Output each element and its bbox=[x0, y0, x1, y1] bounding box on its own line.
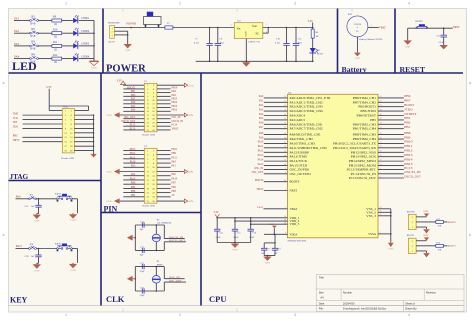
wire D6 to ground rail bbox=[312, 52, 314, 62]
ground P4 bbox=[124, 43, 132, 52]
svg-text:3.3V: 3.3V bbox=[423, 210, 428, 213]
ground U3 bbox=[242, 61, 250, 66]
wire PA1 to JP1 bbox=[14, 20, 30, 22]
net label PC15 P1 bbox=[123, 124, 144, 127]
jumper JP6 bbox=[29, 243, 37, 249]
net label PB13 P2 bbox=[123, 148, 144, 151]
svg-text:PA2: PA2 bbox=[259, 104, 264, 107]
svg-text:BOOT1: BOOT1 bbox=[407, 234, 416, 237]
wire PA4 to JP4 bbox=[14, 58, 30, 60]
net label PA9 CPU bbox=[259, 136, 264, 139]
pin label PA15/JTDI bbox=[290, 164, 308, 168]
svg-text:File:: File: bbox=[319, 306, 324, 310]
svg-text:GND: GND bbox=[355, 57, 360, 60]
resistor R8 1K bbox=[311, 28, 319, 39]
svg-text:22pF: 22pF bbox=[140, 295, 145, 297]
svg-text:TMS: TMS bbox=[13, 112, 19, 115]
net label PB3 P2 bbox=[157, 190, 177, 193]
svg-text:PB8/TIM4_CH3: PB8/TIM4_CH3 bbox=[353, 133, 377, 137]
wire VSS bus bbox=[378, 207, 392, 242]
net label PA5 CPU bbox=[259, 117, 264, 120]
net label PC14 P1 bbox=[157, 124, 178, 127]
wire PA13 to CPU pin 34 bbox=[264, 155, 288, 157]
switch KEY2 bbox=[55, 242, 72, 251]
svg-text:PB10: PB10 bbox=[172, 86, 178, 89]
ground C11 bbox=[33, 214, 41, 223]
net label TDI JTAG bbox=[13, 121, 17, 124]
svg-text:0.1uF: 0.1uF bbox=[234, 237, 240, 239]
net label PB12 P2 bbox=[123, 152, 144, 155]
net label PB15 P1 bbox=[157, 97, 178, 100]
wire BAT pin1 to VBAT bbox=[368, 25, 379, 27]
net label NRST JTAG bbox=[13, 139, 20, 142]
wire R9 to LED01 bbox=[62, 20, 73, 22]
svg-text:PA3: PA3 bbox=[14, 42, 19, 46]
net label PA0 bbox=[16, 196, 21, 199]
svg-text:31: 31 bbox=[284, 142, 286, 144]
net label OSC32_OUT bbox=[169, 239, 186, 242]
svg-text:21: 21 bbox=[380, 142, 382, 144]
wire KEY1 to GND bbox=[72, 199, 77, 213]
svg-text:24: 24 bbox=[284, 216, 286, 218]
svg-text:GND: GND bbox=[70, 219, 75, 222]
capacitor C11 1uF bbox=[25, 199, 42, 214]
net label PA14 CPU bbox=[258, 158, 264, 161]
power port 3.3V P1 pin1 bbox=[117, 79, 145, 85]
wire VDD_1 rail bbox=[216, 216, 287, 219]
wire BOOT1 pin2 to BOOT1 bbox=[416, 245, 436, 247]
svg-text:2019/4/30: 2019/4/30 bbox=[343, 301, 355, 305]
power port GND left P2 row6 bbox=[106, 169, 144, 174]
svg-text:GND: GND bbox=[34, 220, 39, 223]
wire RESET left to GND bbox=[407, 28, 409, 39]
pin label PA14/JTCK bbox=[290, 159, 308, 163]
svg-text:Header 13X2: Header 13X2 bbox=[142, 133, 156, 136]
wire PA6 to CPU pin 16 bbox=[264, 123, 288, 125]
capacitor C9 10uf bbox=[215, 28, 224, 62]
wire PA12 to CPU pin 33 bbox=[264, 151, 288, 153]
svg-text:PB3/JTDO: PB3/JTDO bbox=[360, 109, 376, 113]
svg-text:10K: 10K bbox=[438, 226, 442, 228]
text Header 13X2 P2 bbox=[142, 205, 156, 208]
wire U3 GND pin bbox=[245, 39, 247, 62]
svg-text:NRST: NRST bbox=[453, 26, 460, 29]
pin label PA6/ADC6/TIM3_CH1 bbox=[290, 122, 324, 126]
svg-text:44: 44 bbox=[284, 180, 286, 182]
power label 3.3V VDD bbox=[214, 211, 220, 218]
svg-text:3.3V: 3.3V bbox=[214, 211, 219, 214]
net label PB1 CPU right bbox=[404, 126, 411, 129]
LED LED02 bbox=[73, 28, 90, 36]
svg-text:PA11: PA11 bbox=[172, 156, 178, 159]
net label PA11 P2 bbox=[157, 156, 178, 159]
svg-text:1uF: 1uF bbox=[31, 205, 35, 208]
capacitor C14 0.1uF VDD bbox=[214, 218, 224, 243]
wire VDDA caps to ground bbox=[264, 255, 275, 257]
svg-text:Header 10X2: Header 10X2 bbox=[62, 157, 76, 160]
pin label PB0/TIM3_CH3 bbox=[353, 122, 377, 126]
svg-text:a: a bbox=[3, 81, 5, 85]
svg-text:PB15: PB15 bbox=[172, 97, 178, 100]
svg-text:GND: GND bbox=[265, 262, 270, 265]
capacitor C21 22pF bbox=[140, 263, 145, 273]
svg-text:Drawn By:: Drawn By: bbox=[405, 306, 417, 310]
power port GND right P1 row1 bbox=[157, 83, 194, 87]
svg-text:VBAT: VBAT bbox=[257, 206, 264, 209]
wire P4 pin1 to rail bbox=[114, 27, 143, 29]
header P2 Header 13X2 bbox=[144, 145, 157, 203]
net label PA11 CPU bbox=[258, 145, 264, 148]
svg-text:OSC_OUT: OSC_OUT bbox=[169, 279, 182, 282]
pin label PB1/TIM3_CH4 bbox=[353, 127, 377, 131]
wire S1 to F1 bbox=[143, 27, 165, 29]
svg-text:0.1uF: 0.1uF bbox=[249, 237, 255, 239]
net label PA8 CPU bbox=[259, 132, 264, 135]
section title Battery bbox=[342, 65, 367, 74]
ground BAT bbox=[354, 52, 361, 60]
section title CLK bbox=[106, 294, 125, 304]
svg-text:1: 1 bbox=[371, 25, 372, 27]
ground rail POWER bbox=[196, 61, 314, 63]
svg-text:22pF: 22pF bbox=[140, 271, 145, 273]
wire JTAG GND bus bbox=[74, 114, 94, 152]
svg-text:PA1/ADC1/TIM2_CH2: PA1/ADC1/TIM2_CH2 bbox=[290, 100, 324, 104]
net label PC13 P1 bbox=[123, 127, 144, 130]
switch KEY1 bbox=[55, 193, 72, 202]
section title PIN bbox=[104, 204, 118, 213]
wire TCK to JTAG bbox=[23, 119, 63, 121]
wire BOOT0 pin2 to BOOT0 bbox=[416, 221, 436, 223]
svg-text:PB12/SPI2_NSS: PB12/SPI2_NSS bbox=[351, 150, 377, 154]
pin label VDDA bbox=[290, 232, 298, 236]
pin label PA0/ADC0/TIM2_CH1_ETR bbox=[290, 96, 332, 100]
svg-text:GND: GND bbox=[34, 269, 39, 272]
connector P4 POWERIN bbox=[108, 22, 120, 44]
svg-text:45: 45 bbox=[380, 133, 382, 135]
svg-text:DC5V: DC5V bbox=[109, 40, 116, 43]
svg-text:PA4: PA4 bbox=[14, 55, 19, 59]
net label PA3 CPU bbox=[259, 108, 264, 111]
net label PA6 P1 bbox=[123, 101, 144, 104]
svg-text:30: 30 bbox=[284, 137, 286, 139]
net label OSC32_OUT P1 bbox=[121, 120, 144, 123]
capacitor C17 9pF bbox=[140, 247, 145, 257]
svg-text:25: 25 bbox=[380, 151, 382, 153]
pin label PB15/SPI2_MOSI bbox=[349, 164, 376, 168]
svg-text:VBAT: VBAT bbox=[290, 207, 298, 211]
svg-text:PA4: PA4 bbox=[259, 113, 264, 116]
svg-text:TDO: TDO bbox=[13, 126, 18, 129]
svg-text:14: 14 bbox=[284, 114, 286, 116]
net label PA6 CPU bbox=[259, 122, 264, 125]
net label PB8 P2 bbox=[123, 190, 144, 193]
svg-text:8: 8 bbox=[380, 232, 381, 234]
wire CPU pin 22 to PB11 bbox=[378, 146, 404, 148]
svg-text:TDI: TDI bbox=[13, 121, 17, 124]
net label PB9 P2 bbox=[157, 152, 177, 155]
wire P4 pins 2-3 to GND bbox=[114, 31, 128, 43]
svg-text:PA1: PA1 bbox=[259, 100, 264, 103]
svg-text:PB6/TIM4_CH1: PB6/TIM4_CH1 bbox=[353, 96, 377, 100]
svg-text:PB10: PB10 bbox=[404, 141, 413, 144]
svg-text:PB1/TIM3_CH4: PB1/TIM3_CH4 bbox=[353, 127, 377, 131]
net label OSC32_IN bbox=[169, 236, 183, 239]
section title JTAG bbox=[10, 173, 29, 181]
svg-text:PA14: PA14 bbox=[172, 177, 178, 180]
svg-text:2: 2 bbox=[179, 313, 181, 317]
svg-text:R12: R12 bbox=[53, 54, 58, 57]
pin label PB6/TIM4_CH1 bbox=[353, 96, 377, 100]
wire PA2 to JP2 bbox=[14, 32, 30, 34]
net label PB5 CPU right bbox=[404, 117, 411, 120]
net label PB6 P2 bbox=[123, 182, 144, 185]
wire LED04 to GND bus bbox=[79, 58, 94, 60]
pin label NRST bbox=[290, 189, 298, 193]
svg-text:PB9: PB9 bbox=[404, 136, 411, 139]
wire PA11 to CPU pin 32 bbox=[264, 146, 288, 148]
wire BOOT1 pin1 to GND bbox=[416, 251, 426, 252]
svg-text:48: 48 bbox=[284, 223, 286, 225]
net label PB8 CPU right bbox=[404, 132, 411, 135]
svg-text:35: 35 bbox=[380, 211, 382, 213]
wire CPU pin 19 to PB1 bbox=[378, 127, 404, 129]
svg-text:PA3/ADC3/TIM2_CH4: PA3/ADC3/TIM2_CH4 bbox=[290, 109, 324, 113]
net label 5V P2 bbox=[157, 194, 175, 197]
svg-text:VBAT: VBAT bbox=[379, 27, 386, 30]
svg-text:PA4/ADC4: PA4/ADC4 bbox=[290, 114, 306, 118]
svg-text:VSSA: VSSA bbox=[368, 232, 377, 236]
svg-text:PA12/USBDP: PA12/USBDP bbox=[290, 150, 310, 154]
pin label PA4/ADC4 bbox=[290, 114, 306, 118]
svg-text:JP-B: JP-B bbox=[30, 48, 35, 51]
svg-text:Size: Size bbox=[319, 290, 325, 294]
net label PA8 P1 bbox=[157, 90, 177, 93]
ground BOOT0 bbox=[423, 228, 430, 233]
wire F1 to U3 Vin bbox=[173, 27, 234, 29]
ground VDD caps bbox=[231, 243, 239, 252]
pin label VSS_3 bbox=[366, 214, 376, 218]
capacitor C12 10uf bbox=[293, 28, 302, 62]
wire CPU pin 42 to PB6 bbox=[378, 96, 404, 98]
svg-text:GND: GND bbox=[232, 249, 237, 252]
net label PA2 P2 bbox=[123, 173, 144, 176]
svg-text:3: 3 bbox=[285, 168, 286, 170]
svg-text:9: 9 bbox=[285, 233, 286, 235]
svg-text:PB7: PB7 bbox=[172, 182, 177, 185]
wire CPU pin 40 to NJTRST bbox=[378, 114, 404, 116]
svg-text:JTAG: JTAG bbox=[10, 173, 29, 181]
svg-text:4: 4 bbox=[380, 176, 381, 178]
header P1 Header 13X2 bbox=[144, 80, 157, 132]
capacitor C7 0.1uf bbox=[194, 28, 213, 62]
wire PA4 to CPU pin 14 bbox=[264, 114, 288, 116]
pin label PB7/TIM4_CH2 bbox=[353, 100, 377, 104]
svg-text:1: 1 bbox=[412, 227, 413, 229]
net label BOOT0 bbox=[444, 221, 457, 224]
svg-text:22: 22 bbox=[380, 146, 382, 148]
pin label VSS_1 bbox=[366, 207, 376, 211]
resistor R9 bbox=[52, 16, 62, 26]
svg-text:PA1: PA1 bbox=[14, 16, 19, 20]
svg-text:32.768kHz: 32.768kHz bbox=[157, 222, 173, 225]
resistor R14 10K bbox=[436, 243, 444, 252]
svg-text:46: 46 bbox=[380, 137, 382, 139]
net label PA4 CPU bbox=[259, 113, 264, 116]
svg-text:13: 13 bbox=[284, 109, 286, 111]
net label PA1 P2 bbox=[157, 165, 177, 168]
wire R12 to LED04 bbox=[62, 58, 73, 60]
wire TDI to JTAG bbox=[23, 123, 63, 125]
wire PA0 to CPU pin 10 bbox=[264, 96, 288, 98]
wire CPU pin 20 to BOOT1 bbox=[378, 105, 404, 107]
svg-text:BOOT1: BOOT1 bbox=[448, 245, 457, 248]
net label PB5 P2 bbox=[157, 186, 177, 189]
net label OSC_IN bbox=[169, 276, 180, 279]
wire CPU pin 2 to PC13 bbox=[378, 168, 404, 170]
wire U3 Vout rail bbox=[263, 27, 314, 33]
wire BOOT1 pin3 to 3.3V bbox=[416, 240, 426, 242]
svg-text:PB13: PB13 bbox=[404, 154, 413, 157]
svg-text:32: 32 bbox=[284, 146, 286, 148]
svg-text:PB9/TIM4_CH4: PB9/TIM4_CH4 bbox=[353, 137, 377, 141]
svg-text:3.3V: 3.3V bbox=[269, 223, 274, 226]
pin label PA11/USBDM/TIM1_CH4 bbox=[290, 146, 328, 150]
svg-text:26: 26 bbox=[380, 155, 382, 157]
svg-text:OSC_OUT: OSC_OUT bbox=[252, 171, 264, 174]
svg-text:PA15: PA15 bbox=[258, 163, 264, 166]
ground LED bus bbox=[90, 61, 99, 69]
net label PB7 CPU right bbox=[404, 100, 411, 103]
wire LED01 to GND bus bbox=[79, 20, 94, 22]
svg-text:3.3V: 3.3V bbox=[117, 79, 122, 82]
ground RESET left bbox=[404, 39, 412, 48]
svg-text:PB14: PB14 bbox=[172, 101, 178, 104]
ground KEY1 bbox=[69, 213, 77, 222]
wire PA3 to JP3 bbox=[14, 45, 30, 47]
pin label PB2/BOOT1 bbox=[358, 105, 376, 109]
svg-text:4: 4 bbox=[408, 2, 410, 6]
svg-text:2: 2 bbox=[111, 32, 112, 34]
svg-text:POWERIN: POWERIN bbox=[108, 22, 120, 25]
svg-text:3.3V: 3.3V bbox=[308, 20, 314, 23]
wire JP2 to R10 bbox=[38, 32, 52, 34]
wire BOOT0 pin3 to 3.3V bbox=[416, 216, 426, 218]
svg-text:PA8/MCO/TIM1_CH1: PA8/MCO/TIM1_CH1 bbox=[290, 133, 322, 137]
svg-text:PA9/TIM1_CH2: PA9/TIM1_CH2 bbox=[290, 137, 314, 141]
net label PB15 CPU right bbox=[404, 163, 413, 166]
pin label PC14/OSC32_IN bbox=[351, 172, 377, 176]
power port 3.3V right P2 row13 bbox=[157, 199, 193, 203]
svg-text:PA10/TIM1_CH3: PA10/TIM1_CH3 bbox=[290, 141, 316, 145]
net label PA13 P2 bbox=[123, 177, 144, 180]
switch S1 bbox=[144, 12, 162, 28]
svg-text:PB9: PB9 bbox=[172, 152, 177, 155]
svg-text:1: 1 bbox=[65, 313, 67, 317]
svg-text:OSC_OUT/PD1: OSC_OUT/PD1 bbox=[290, 172, 312, 176]
pin label OSC_OUT/PD1 bbox=[290, 172, 312, 176]
svg-text:19: 19 bbox=[380, 127, 382, 129]
net label PB0 CPU right bbox=[404, 122, 411, 125]
wire OSC_IN to CPU pin 3 bbox=[264, 168, 288, 170]
svg-text:GND: GND bbox=[188, 84, 194, 87]
svg-text:PB3: PB3 bbox=[172, 190, 177, 193]
svg-text:GND: GND bbox=[388, 248, 393, 251]
wire PB3 to JTAG bbox=[23, 136, 63, 138]
power label 3.3V BOOT0 bbox=[423, 210, 429, 217]
text Header 10X2 bbox=[62, 157, 76, 160]
svg-text:PB12: PB12 bbox=[404, 150, 413, 153]
resistor R11 bbox=[52, 41, 62, 51]
wire KEY2 to GND bbox=[72, 249, 77, 263]
pin label VSSA bbox=[368, 232, 377, 236]
pin label PB14/SPI2_MISO bbox=[349, 159, 377, 163]
wire CPU pin 39 to JTDO bbox=[378, 109, 404, 111]
power label 3.3V POWER out bbox=[308, 20, 314, 28]
wire JP6 to KEY2 bbox=[36, 248, 56, 250]
wire CPU pin 41 to PB5 bbox=[378, 118, 404, 120]
net label PA12 P2 bbox=[123, 156, 144, 159]
capacitor C17 1uF VDDA bbox=[261, 243, 271, 256]
svg-text:GND: GND bbox=[106, 171, 112, 174]
svg-text:11: 11 bbox=[284, 101, 286, 103]
svg-text:PA13/JTMS: PA13/JTMS bbox=[290, 155, 308, 159]
net label PA4 bbox=[14, 55, 19, 59]
net label PB9 CPU right bbox=[404, 136, 411, 139]
wire JP1 to R9 bbox=[38, 20, 52, 22]
svg-text:BAT: BAT bbox=[348, 13, 353, 16]
svg-text:PC13: PC13 bbox=[404, 167, 413, 170]
wire CPU pin 3 to OSC32_IN bbox=[378, 172, 404, 174]
svg-text:JP-B: JP-B bbox=[30, 60, 35, 63]
capacitor C16 0.1uF VDD bbox=[248, 218, 258, 243]
svg-text:1: 1 bbox=[65, 2, 67, 6]
mcu U4 STM32F103C8T6 bbox=[288, 91, 379, 238]
svg-text:PB7: PB7 bbox=[404, 100, 411, 103]
wire VDD_3 rail bbox=[250, 223, 288, 226]
net label BOOT0 CPU bbox=[255, 179, 264, 182]
wire BAT to GND bbox=[356, 37, 358, 52]
net label VBAT P1 bbox=[157, 127, 179, 130]
svg-text:RESET: RESET bbox=[415, 20, 423, 23]
svg-text:12: 12 bbox=[284, 105, 286, 107]
power label 3.3V BOOT1 bbox=[423, 234, 429, 241]
svg-text:3.3V: 3.3V bbox=[423, 234, 428, 237]
wire PA7 to CPU pin 17 bbox=[264, 127, 288, 129]
pin label PA8/MCO/TIM1_CH1 bbox=[290, 133, 322, 137]
svg-text:PB0: PB0 bbox=[404, 122, 411, 125]
svg-text:JP-B: JP-B bbox=[30, 35, 35, 38]
svg-text:37: 37 bbox=[284, 159, 286, 161]
resistor R12 bbox=[52, 54, 62, 64]
wire PA5 to CPU pin 15 bbox=[264, 118, 288, 120]
capacitor C19 1uF VDDA bbox=[272, 243, 281, 256]
svg-text:D:\professional\..\stm32f103c8: D:\professional\..\stm32f103c8t6.SchDoc bbox=[343, 307, 387, 310]
svg-text:PA5/ADC5: PA5/ADC5 bbox=[290, 118, 306, 122]
svg-text:PA8: PA8 bbox=[172, 90, 177, 93]
svg-text:47: 47 bbox=[380, 214, 382, 216]
wire PA14 to CPU pin 37 bbox=[264, 159, 288, 161]
svg-text:R10: R10 bbox=[53, 28, 58, 31]
wire R8 to D6 bbox=[312, 38, 314, 48]
net label PA7 CPU bbox=[259, 126, 264, 129]
net label PB13 CPU right bbox=[404, 154, 413, 157]
svg-text:PB5: PB5 bbox=[370, 118, 376, 122]
net label VBAT CPU bbox=[257, 206, 264, 209]
svg-text:28: 28 bbox=[380, 164, 382, 166]
svg-text:1uF: 1uF bbox=[31, 255, 35, 258]
net label PA12 CPU bbox=[258, 150, 264, 153]
svg-text:39: 39 bbox=[380, 109, 382, 111]
